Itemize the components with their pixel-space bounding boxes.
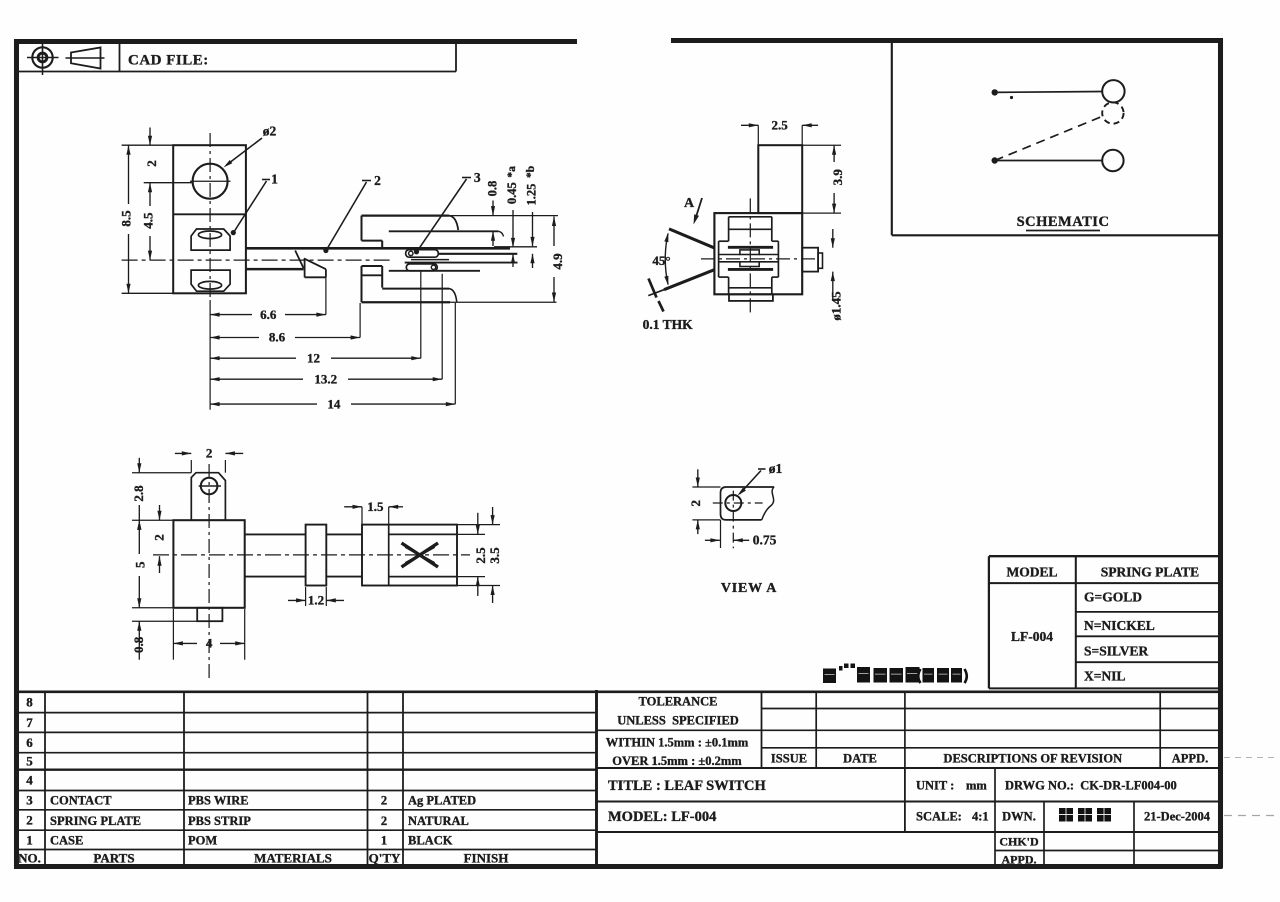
svg-text:CASE: CASE (50, 834, 83, 848)
dimension 14 (210, 303, 455, 412)
parts table grid (14, 690, 1219, 867)
svg-text:SCHEMATIC: SCHEMATIC (1017, 214, 1110, 230)
svg-text:UNIT :: UNIT : (916, 779, 954, 793)
main view mounting hole circle (190, 164, 231, 199)
main view horizontal centerline (122, 259, 392, 261)
bottom view body square (173, 520, 244, 608)
svg-text:TITLE : LEAF SWITCH: TITLE : LEAF SWITCH (608, 778, 767, 794)
main view case body outline (173, 145, 246, 293)
dimension 1.25 b (525, 166, 539, 268)
svg-text:4:1: 4:1 (972, 810, 989, 824)
side view clamp lines (719, 255, 779, 262)
housing lower outline (362, 266, 481, 302)
bottom view bottom tab (197, 608, 222, 621)
side view bottom tab (729, 294, 773, 301)
schematic box outline (892, 43, 1220, 235)
svg-text:CHK'D: CHK'D (999, 835, 1039, 849)
dimension 4.9 (450, 217, 565, 303)
svg-text:5: 5 (132, 561, 147, 568)
svg-text:6: 6 (26, 735, 33, 750)
svg-text:2: 2 (381, 814, 387, 828)
svg-text:2: 2 (26, 813, 33, 828)
model table grid (989, 556, 1219, 688)
title row (597, 768, 1220, 832)
svg-text:2: 2 (144, 160, 159, 167)
svg-text:CONTACT: CONTACT (50, 794, 112, 808)
svg-text:21-Dec-2004: 21-Dec-2004 (1144, 810, 1211, 824)
svg-text:ø1.45: ø1.45 (829, 291, 844, 321)
third-angle projection symbol cone (66, 48, 105, 69)
side view middle wide block (719, 241, 779, 277)
chinese annotation note (823, 664, 967, 684)
main view upper slot (191, 229, 230, 250)
view A tab outline (721, 487, 775, 520)
svg-text:4.5: 4.5 (141, 212, 156, 229)
svg-text:1: 1 (381, 834, 387, 848)
schematic dashed actuation line (995, 116, 1103, 160)
label 2 with leader (323, 173, 381, 253)
dimension 0.75 (705, 533, 777, 548)
svg-text:5: 5 (26, 754, 33, 769)
dimension 0.8 (131, 608, 197, 660)
bottom view right socket (362, 525, 457, 586)
leaf extension stub (494, 246, 537, 248)
svg-text:3: 3 (474, 170, 481, 185)
spring leaf upper line (246, 247, 510, 250)
dimension 1.2 (288, 587, 344, 608)
svg-text:1.25: 1.25 (525, 184, 539, 206)
sheet border left (14, 39, 19, 869)
dimension 2.8 (131, 458, 191, 530)
svg-text:1.2: 1.2 (308, 593, 324, 608)
svg-text:DESCRIPTIONS OF REVISION: DESCRIPTIONS OF REVISION (943, 752, 1122, 766)
svg-text:6.6: 6.6 (260, 307, 277, 322)
svg-text:DRWG NO.: CK-DR-LF004-00: DRWG NO.: CK-DR-LF004-00 (1005, 779, 1177, 793)
svg-text:2: 2 (152, 534, 167, 541)
svg-text:NO.: NO. (18, 851, 41, 866)
bottom view shaft lines (245, 534, 362, 576)
sheet border right (1218, 38, 1223, 868)
dimension 2.5 (socket) (458, 513, 488, 596)
svg-text:7: 7 (26, 715, 33, 730)
parts table row 1 CASE (50, 834, 453, 848)
bottom view mounting tab (191, 473, 225, 521)
svg-text:WITHIN 1.5mm : ±0.1mm: WITHIN 1.5mm : ±0.1mm (606, 736, 749, 750)
svg-text:mm: mm (966, 779, 987, 793)
svg-text:3.9: 3.9 (830, 169, 845, 186)
signature block (995, 802, 1219, 867)
svg-text:1.5: 1.5 (367, 499, 384, 514)
bottom view vertical centerline (208, 464, 210, 680)
upper leaf bottom line (439, 253, 517, 255)
label 1 with leader (231, 172, 278, 236)
dimension 2 (tab width) (175, 446, 243, 473)
svg-text:G=GOLD: G=GOLD (1084, 590, 1142, 605)
model row (597, 809, 1220, 832)
lower contact pill (406, 264, 437, 271)
45 degree arc dimension (652, 233, 670, 286)
bottom view horizontal centerline (153, 554, 470, 556)
svg-text:1: 1 (26, 832, 33, 847)
spring leaf bend (295, 251, 326, 278)
svg-text:DATE: DATE (843, 752, 877, 766)
svg-text:2: 2 (688, 500, 703, 507)
svg-text:SPRING PLATE: SPRING PLATE (50, 814, 141, 828)
svg-text:8.5: 8.5 (118, 210, 133, 227)
parts table row 3 CONTACT (50, 794, 476, 808)
svg-text:8.6: 8.6 (269, 330, 286, 345)
schematic common terminal upper (992, 89, 1103, 95)
dimension 2 (top) (144, 128, 193, 183)
view A hole phi1 (713, 491, 763, 549)
side view leaf cross-sections (728, 247, 773, 269)
view A extension lines (692, 487, 720, 548)
dimension 8.5 (118, 145, 173, 293)
spring cross symbol (402, 543, 439, 567)
svg-text:PBS STRIP: PBS STRIP (188, 814, 251, 828)
dimension 2.5 (741, 117, 818, 145)
schematic dashed contact circle (1102, 102, 1123, 123)
angular dimension ticks (649, 279, 664, 312)
spring leaf lower line (246, 268, 304, 270)
svg-text:CAD FILE:: CAD FILE: (128, 53, 209, 69)
side view lower inner block (729, 277, 772, 294)
svg-text:2: 2 (206, 446, 213, 461)
svg-text:MODEL: LF-004: MODEL: LF-004 (608, 809, 716, 825)
svg-text:PARTS: PARTS (93, 851, 134, 866)
bottom view tab hole (199, 478, 221, 495)
side view body outline (714, 213, 802, 294)
lower leaf line (405, 260, 518, 263)
svg-text:A: A (684, 196, 695, 211)
label 3 with leader (414, 170, 481, 254)
svg-text:FINISH: FINISH (464, 851, 509, 866)
leaf arm upper (669, 229, 714, 248)
housing upper outline (362, 216, 504, 249)
dimension 1.5 (344, 499, 403, 525)
side view clamp rects (740, 250, 759, 267)
svg-text:PBS WIRE: PBS WIRE (188, 794, 249, 808)
svg-text:SPRING PLATE: SPRING PLATE (1101, 565, 1199, 580)
dimension 3.9 (802, 145, 845, 213)
svg-text:3: 3 (26, 793, 33, 808)
scan artifact dashes right margin (1224, 758, 1278, 816)
svg-text:ø1: ø1 (769, 461, 783, 476)
svg-text:S=SILVER: S=SILVER (1084, 644, 1148, 659)
svg-text:BLACK: BLACK (408, 834, 453, 848)
parts table row numbers (18, 695, 41, 866)
svg-text:2: 2 (374, 173, 381, 188)
svg-text:APPD.: APPD. (1002, 853, 1037, 867)
svg-text:12: 12 (307, 350, 320, 365)
third-angle projection symbol circle (27, 41, 59, 76)
svg-text:4: 4 (26, 773, 33, 788)
dimension 6.6 (210, 277, 326, 322)
parts table footer labels (93, 851, 508, 866)
svg-text:ISSUE: ISSUE (771, 752, 807, 766)
CAD FILE header box (19, 43, 457, 72)
dimension 0.8 (450, 181, 558, 246)
dimension 5 (132, 520, 147, 608)
dimension 3.5 (458, 507, 502, 603)
sheet border top (with scan gap) (14, 41, 1222, 42)
svg-text:14: 14 (327, 396, 341, 411)
dimension 8.6 (210, 303, 360, 345)
svg-text:2: 2 (381, 794, 387, 808)
label phi2 with leader (224, 124, 277, 168)
svg-text:N=NICKEL: N=NICKEL (1084, 618, 1155, 633)
view direction arrow A (684, 196, 702, 225)
svg-text:0.45: 0.45 (505, 182, 519, 204)
svg-text:2.5: 2.5 (771, 117, 788, 132)
schematic upper contact circle (1102, 80, 1124, 102)
dimension 2 (slot) (152, 505, 167, 573)
svg-text:MODEL: MODEL (1006, 565, 1057, 580)
svg-text:0.75: 0.75 (753, 533, 777, 548)
leaf arm lower (648, 270, 714, 296)
upper contact pill (406, 250, 439, 258)
svg-text:8: 8 (26, 695, 33, 710)
svg-text:SCALE:: SCALE: (916, 810, 962, 824)
svg-text:APPD.: APPD. (1172, 752, 1208, 766)
drawn-by name glyphs (1059, 808, 1111, 822)
svg-text:0.8: 0.8 (486, 181, 500, 197)
svg-text:4: 4 (206, 636, 213, 651)
dimension 2 (view A) (688, 469, 703, 534)
svg-text:3.5: 3.5 (487, 547, 502, 564)
parts table row 2 SPRING PLATE (50, 814, 469, 828)
side view upper inner block (729, 217, 772, 241)
dimension phi1.45 (829, 229, 844, 321)
svg-text:13.2: 13.2 (314, 371, 337, 386)
side view plunger rectangle (758, 145, 802, 213)
SCHEMATIC label (1017, 214, 1110, 231)
dimension 0.45 a (505, 166, 519, 267)
tolerance box (597, 692, 762, 768)
svg-text:LF-004: LF-004 (1011, 629, 1053, 644)
svg-text:*a: *a (506, 166, 518, 178)
sheet border bottom (14, 864, 1223, 869)
side view right tab phi1.45 (802, 248, 822, 272)
svg-text:1: 1 (271, 172, 278, 187)
svg-text:OVER 1.5mm : ±0.2mm: OVER 1.5mm : ±0.2mm (612, 754, 742, 768)
main view bottom extension line (209, 300, 211, 410)
svg-text:2.5: 2.5 (473, 547, 488, 564)
main view lower slot (191, 270, 230, 291)
side view vertical centerline (749, 198, 751, 315)
svg-text:2.8: 2.8 (131, 485, 146, 502)
dimension 4.5 (141, 183, 156, 260)
svg-text:ø2: ø2 (263, 124, 277, 139)
main view vertical centerline (209, 133, 211, 300)
svg-text:X=NIL: X=NIL (1084, 669, 1125, 684)
svg-text:0.1 THK: 0.1 THK (643, 317, 694, 332)
svg-text:NATURAL: NATURAL (408, 814, 469, 828)
bottom view collar (306, 525, 327, 586)
svg-text:DWN.: DWN. (1002, 810, 1036, 824)
dimension 13.2 (210, 274, 442, 387)
schematic lower contact circle (1102, 150, 1123, 171)
svg-text:Q'TY: Q'TY (369, 851, 401, 866)
schematic tick mark (1010, 96, 1013, 99)
svg-text:45°: 45° (652, 253, 670, 268)
side view horizontal centerline (701, 258, 818, 260)
dimension 4 (173, 609, 244, 660)
label phi1 with leader (738, 461, 783, 496)
svg-text:4.9: 4.9 (550, 253, 565, 270)
dimension 12 (210, 271, 421, 365)
svg-text:0.8: 0.8 (131, 636, 146, 653)
svg-text:VIEW A: VIEW A (721, 581, 777, 596)
schematic lower terminal (992, 157, 1103, 163)
svg-text:POM: POM (188, 834, 217, 848)
svg-text:*b: *b (525, 166, 537, 178)
svg-text:Ag PLATED: Ag PLATED (408, 794, 476, 808)
svg-text:UNLESS SPECIFIED: UNLESS SPECIFIED (617, 714, 739, 728)
svg-text:MATERIALS: MATERIALS (254, 851, 332, 866)
svg-text:TOLERANCE: TOLERANCE (639, 695, 718, 709)
revision table (597, 692, 1220, 768)
